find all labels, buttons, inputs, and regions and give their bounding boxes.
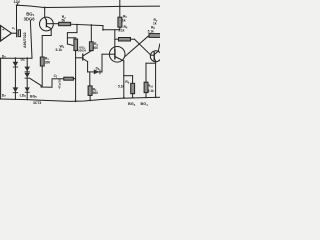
svg-text:D7: D7 <box>2 93 7 98</box>
svg-text:R10: R10 <box>148 84 154 89</box>
svg-text:300: 300 <box>45 60 51 64</box>
svg-text:D6: D6 <box>21 57 26 62</box>
svg-text:1k: 1k <box>122 18 126 22</box>
svg-text:5.1k: 5.1k <box>148 89 154 93</box>
svg-text:R9: R9 <box>125 80 129 85</box>
svg-text:12V: 12V <box>14 0 21 4</box>
svg-text:5.1k: 5.1k <box>118 85 124 89</box>
svg-text:5.1k: 5.1k <box>118 29 124 33</box>
svg-text:3CT3: 3CT3 <box>33 101 41 105</box>
svg-text:D5: D5 <box>2 54 7 59</box>
svg-text:5.1k: 5.1k <box>56 48 63 52</box>
svg-text:5.1k: 5.1k <box>148 30 154 34</box>
svg-text:3DG6: 3DG6 <box>24 16 36 21</box>
svg-text:47μ/16: 47μ/16 <box>58 79 62 89</box>
svg-text:LD8: LD8 <box>20 93 27 98</box>
svg-text:560: 560 <box>93 91 99 95</box>
svg-text:1k: 1k <box>153 21 157 25</box>
svg-text:A86/7022: A86/7022 <box>23 32 27 48</box>
svg-text:BG5: BG5 <box>30 95 37 100</box>
svg-text:3DG6: 3DG6 <box>78 49 86 53</box>
svg-text:5k: 5k <box>62 19 66 23</box>
svg-text:300: 300 <box>93 46 99 50</box>
